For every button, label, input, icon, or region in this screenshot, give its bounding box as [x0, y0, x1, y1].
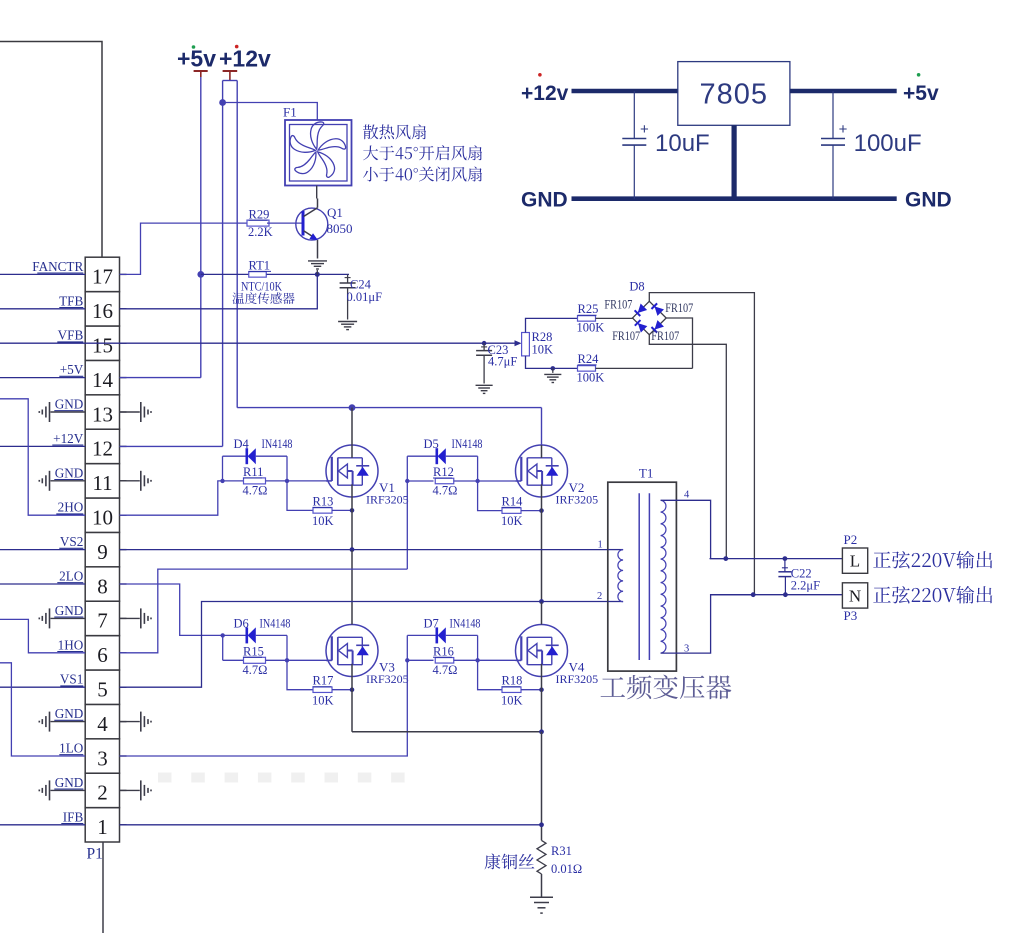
svg-text:2.2K: 2.2K — [248, 225, 273, 239]
svg-text:10K: 10K — [312, 514, 334, 528]
svg-text:+12v: +12v — [521, 82, 569, 105]
svg-text:6: 6 — [97, 643, 108, 667]
svg-text:100K: 100K — [577, 321, 605, 335]
svg-text:4.7Ω: 4.7Ω — [433, 484, 458, 498]
svg-text:L: L — [850, 552, 860, 571]
svg-text:R15: R15 — [243, 644, 264, 658]
svg-text:4: 4 — [684, 490, 690, 501]
svg-text:4.7μF: 4.7μF — [488, 354, 517, 368]
svg-text:7: 7 — [97, 609, 108, 633]
svg-text:4.7Ω: 4.7Ω — [433, 663, 458, 677]
svg-text:R11: R11 — [243, 465, 263, 479]
svg-text:GND: GND — [55, 397, 84, 412]
svg-text:11: 11 — [92, 471, 112, 495]
svg-text:R17: R17 — [313, 674, 334, 688]
svg-text:2HO: 2HO — [58, 500, 84, 515]
svg-text:VFB: VFB — [58, 328, 84, 343]
svg-text:Q1: Q1 — [327, 205, 343, 220]
svg-text:+12v: +12v — [219, 46, 271, 72]
svg-text:1LO: 1LO — [59, 741, 83, 756]
svg-text:1: 1 — [598, 540, 603, 551]
svg-text:8050: 8050 — [327, 221, 353, 236]
svg-text:10uF: 10uF — [655, 130, 710, 157]
svg-text:+: + — [839, 121, 848, 138]
svg-text:IRF3205: IRF3205 — [366, 672, 409, 686]
svg-text:R12: R12 — [433, 465, 454, 479]
svg-text:GND: GND — [55, 465, 84, 480]
svg-text:100K: 100K — [577, 371, 605, 385]
svg-text:IRF3205: IRF3205 — [556, 672, 599, 686]
svg-text:P2: P2 — [844, 532, 858, 547]
svg-text:R14: R14 — [502, 494, 524, 508]
svg-text:D7: D7 — [424, 616, 439, 630]
svg-text:IN4148: IN4148 — [262, 437, 293, 451]
svg-text:D6: D6 — [234, 616, 249, 630]
svg-text:1: 1 — [97, 815, 108, 839]
svg-text:R16: R16 — [433, 644, 454, 658]
svg-text:GND: GND — [55, 706, 84, 721]
svg-text:F1: F1 — [283, 105, 297, 120]
svg-text:12: 12 — [92, 437, 113, 461]
svg-text:D8: D8 — [629, 280, 644, 294]
svg-text:2: 2 — [97, 781, 108, 805]
svg-text:4.7Ω: 4.7Ω — [243, 663, 268, 677]
svg-text:10K: 10K — [501, 693, 523, 707]
svg-text:R29: R29 — [249, 207, 270, 221]
svg-text:GND: GND — [905, 189, 952, 212]
svg-text:RT1: RT1 — [249, 259, 270, 273]
svg-text:3: 3 — [97, 746, 108, 770]
svg-text:FANCTR: FANCTR — [32, 259, 83, 274]
svg-text:+5v: +5v — [903, 82, 939, 105]
svg-text:VS1: VS1 — [60, 672, 83, 687]
svg-text:R18: R18 — [502, 674, 523, 688]
svg-text:13: 13 — [92, 402, 113, 426]
svg-text:4: 4 — [97, 712, 108, 736]
svg-text:FR107: FR107 — [612, 329, 640, 343]
svg-text:9: 9 — [97, 540, 108, 564]
svg-text:N: N — [849, 586, 861, 605]
svg-text:IRF3205: IRF3205 — [556, 493, 599, 507]
svg-text:10K: 10K — [532, 343, 554, 357]
svg-text:D5: D5 — [424, 437, 439, 451]
svg-text:+: + — [640, 121, 649, 138]
svg-text:3: 3 — [684, 644, 689, 655]
svg-text:IFB: IFB — [63, 809, 84, 824]
svg-text:VS2: VS2 — [60, 534, 83, 549]
svg-text:100uF: 100uF — [854, 130, 922, 157]
svg-text:TFB: TFB — [59, 293, 83, 308]
svg-text:0.01μF: 0.01μF — [347, 290, 383, 304]
svg-text:T1: T1 — [639, 466, 653, 481]
svg-text:0.01Ω: 0.01Ω — [551, 862, 582, 876]
svg-text:GND: GND — [55, 775, 84, 790]
svg-text:2.2μF: 2.2μF — [791, 579, 820, 593]
svg-text:2LO: 2LO — [59, 569, 83, 584]
svg-text:7805: 7805 — [700, 79, 769, 111]
svg-text:4.7Ω: 4.7Ω — [243, 484, 268, 498]
svg-text:+12V: +12V — [53, 431, 84, 446]
svg-text:5: 5 — [97, 678, 108, 702]
svg-text:1HO: 1HO — [58, 637, 84, 652]
svg-text:P3: P3 — [844, 608, 858, 623]
svg-text:10K: 10K — [501, 514, 523, 528]
svg-text:14: 14 — [92, 368, 114, 392]
svg-text:+5v: +5v — [177, 46, 216, 72]
svg-text:R13: R13 — [313, 494, 334, 508]
svg-text:D4: D4 — [234, 437, 250, 451]
svg-text:17: 17 — [92, 265, 113, 289]
svg-text:8: 8 — [97, 574, 108, 598]
svg-text:FR107: FR107 — [604, 298, 632, 312]
svg-text:NTC/10K: NTC/10K — [241, 280, 282, 294]
svg-text:FR107: FR107 — [665, 301, 693, 315]
svg-text:15: 15 — [92, 334, 113, 358]
svg-text:R31: R31 — [551, 844, 572, 858]
svg-text:GND: GND — [521, 189, 568, 212]
svg-text:2: 2 — [597, 591, 602, 602]
svg-text:10: 10 — [92, 506, 113, 530]
svg-text:IN4148: IN4148 — [450, 616, 481, 630]
svg-text:16: 16 — [92, 299, 113, 323]
svg-text:IN4148: IN4148 — [260, 616, 291, 630]
svg-text:FR107: FR107 — [651, 329, 679, 343]
svg-text:GND: GND — [55, 603, 84, 618]
svg-text:P1: P1 — [87, 846, 103, 863]
svg-text:IRF3205: IRF3205 — [366, 493, 409, 507]
svg-text:R25: R25 — [578, 302, 599, 316]
svg-text:R24: R24 — [578, 352, 600, 366]
svg-text:+5V: +5V — [60, 362, 84, 377]
svg-text:10K: 10K — [312, 693, 334, 707]
svg-text:IN4148: IN4148 — [452, 437, 483, 451]
